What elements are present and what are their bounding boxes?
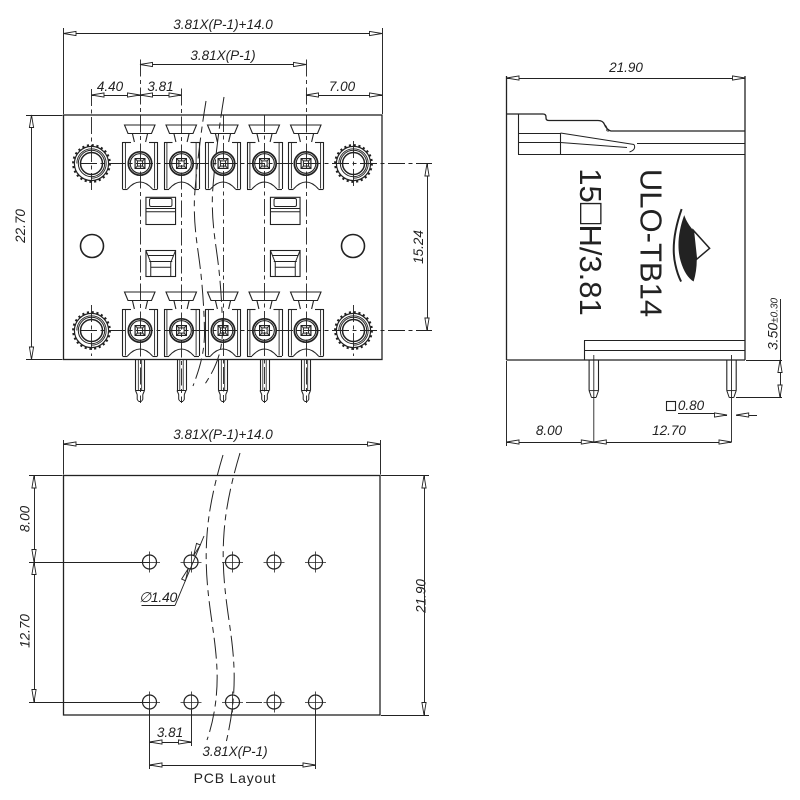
dimension 4.40 [92,95,141,97]
svg-text:8.00: 8.00 [536,423,563,438]
terminal 1 bottom row [125,292,156,301]
hole row extension line bottom [29,702,150,704]
terminal 4 bottom row [249,292,280,301]
side view right edge [744,76,746,360]
svg-text:21.90: 21.90 [414,579,429,614]
svg-text:8.00: 8.00 [18,505,33,532]
break line left top view [193,101,206,386]
dimension 15.24 [427,164,429,331]
pcb hole 5 bottom row [309,695,323,709]
dimension 12.70 side view [594,442,732,444]
brand logo [674,209,710,281]
dimension 3.81 pcb [149,710,151,769]
terminal 3 top row [208,125,239,134]
svg-text:3.81X(P-1): 3.81X(P-1) [202,744,267,759]
dimension 3.81X(P-1) pcb [315,710,317,769]
pcb hole 3 bottom row [226,695,240,709]
hole row extension line top [29,562,150,564]
solder pin 1 top view [135,360,137,391]
svg-text:ULO-TB14: ULO-TB14 [634,169,669,317]
break line right top view [205,97,224,384]
mounting hole left [81,235,104,258]
knurled flange screw bottom-left [74,313,108,347]
row centerline fragment [246,702,262,704]
svg-text:22.70: 22.70 [13,209,28,244]
top view body outline [64,115,383,360]
solder pin 5 top view [301,360,303,391]
knurled flange screw top-right [336,146,370,180]
svg-text:∅1.40: ∅1.40 [139,589,177,605]
pcb hole 5 top row [309,555,323,569]
side view left edge [506,76,508,360]
dimension 3.81 [140,95,182,97]
dimension 3.81X(P-1)+14.0 top view [63,28,65,114]
pcb hole 2 bottom row [184,695,198,709]
dimension 3.81X(P-1) top view [140,64,306,66]
dimension 22.70 [26,115,63,117]
vertical centerlines top view [140,60,142,404]
dimension 21.90 pcb [381,475,429,477]
knurl centerline vertical left [91,89,93,192]
solder pin 4 top view [260,360,262,391]
svg-text:3.81: 3.81 [147,79,173,94]
dimension 12.70 pcb [34,562,36,702]
pcb hole 4 bottom row [267,695,281,709]
mounting hole right [342,235,365,258]
pcb hole 4 top row [267,555,281,569]
dimension 8.00 pcb [29,475,63,477]
row centerline bottom [80,330,432,332]
side view pin left [588,361,590,391]
clamp body box side view [518,133,561,135]
svg-text:7.00: 7.00 [329,79,356,94]
dimension 7.00 [306,95,382,97]
knurled flange screw bottom-right [336,313,370,347]
pcb board outline [64,476,381,716]
knurled flange screw top-left [74,146,108,180]
side view pin right [726,361,728,391]
side view interior vertical wall [518,115,520,155]
svg-text:3.81: 3.81 [157,725,183,740]
svg-text:12.70: 12.70 [18,614,33,648]
bottom ledge side view [584,340,745,342]
svg-text:12.70: 12.70 [652,423,686,438]
dimension square 0.80 [667,402,676,411]
svg-text:15□H/3.81: 15□H/3.81 [572,168,613,316]
side view top profile [507,114,746,131]
side view bottom edge [507,359,746,361]
pcb hole 3 top row [226,555,240,569]
terminal 3 bottom row [208,292,239,301]
svg-text:4.40: 4.40 [97,79,124,94]
pcb hole 2 top row [184,555,198,569]
dimension 3.50 tolerance 0.30 [746,360,782,362]
dimension 3.81X(P-1)+14.0 pcb [63,440,65,475]
svg-text:15.24: 15.24 [411,230,426,264]
terminal 1 top row [125,125,156,134]
clamp spring wedge side view [561,133,635,145]
terminal 2 top row [166,125,197,134]
terminal 4 top row [249,125,280,134]
plug interior line upper [637,143,745,145]
row centerline top [80,163,432,165]
clamp wedge window at x=285.25 [270,251,300,277]
latch window at x=160.75 [146,197,176,224]
clamp wedge window at x=160.75 [146,251,176,277]
solder pin 2 top view [177,360,179,391]
svg-text:21.90: 21.90 [608,60,643,75]
dimension 21.90 side view [507,78,746,80]
svg-text:3.81X(P-1)+14.0: 3.81X(P-1)+14.0 [173,427,273,442]
break line left pcb [206,455,223,740]
solder pin 3 top view [218,360,220,391]
knurl centerline vertical right [353,141,355,186]
pcb hole 1 bottom row [143,695,157,709]
break line right pcb [223,453,240,745]
plug interior line lower [518,154,745,156]
svg-text:0.80: 0.80 [678,398,705,413]
svg-text:PCB Layout: PCB Layout [194,770,277,786]
latch window at x=285.25 [270,197,300,224]
svg-text:3.81X(P-1)+14.0: 3.81X(P-1)+14.0 [173,17,273,32]
terminal 5 bottom row [291,292,322,301]
terminal 2 bottom row [166,292,197,301]
terminal 5 top row [291,125,322,134]
dimension 8.00 side view [506,361,508,446]
svg-text:3.81X(P-1): 3.81X(P-1) [190,48,255,63]
pcb hole 1 top row [143,555,157,569]
